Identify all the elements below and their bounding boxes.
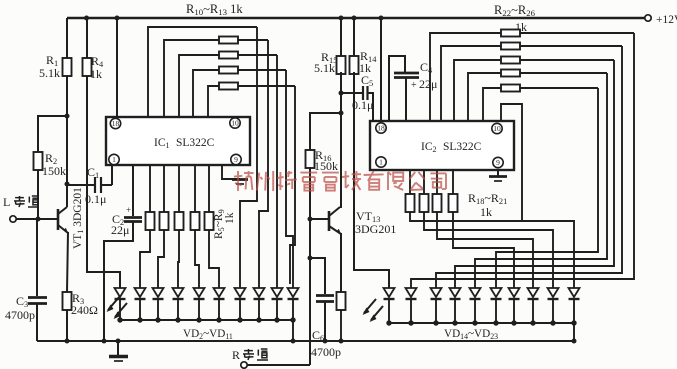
svg-text:18: 18 (112, 119, 120, 128)
svg-text:10: 10 (493, 124, 501, 133)
svg-text:1: 1 (112, 155, 116, 164)
svg-text:3DG201: 3DG201 (355, 222, 396, 236)
svg-text:SL322C: SL322C (443, 141, 482, 153)
svg-text:5.1k: 5.1k (314, 61, 335, 75)
svg-text:1k: 1k (480, 205, 492, 219)
svg-text:1k: 1k (90, 67, 102, 81)
svg-text:0.1μ: 0.1μ (352, 98, 373, 112)
svg-text:+: + (411, 80, 417, 91)
svg-text:1: 1 (379, 158, 383, 167)
svg-text:10: 10 (231, 119, 239, 128)
svg-text:4700p: 4700p (5, 308, 35, 322)
svg-text:9: 9 (496, 158, 500, 167)
svg-text:VD14~VD23: VD14~VD23 (444, 328, 498, 341)
svg-text:L: L (3, 195, 10, 209)
svg-text:240Ω: 240Ω (71, 303, 98, 317)
svg-text:SL322C: SL322C (176, 137, 215, 149)
svg-text:150k: 150k (42, 164, 66, 178)
svg-text:4700p: 4700p (311, 345, 341, 359)
svg-text:22μ: 22μ (419, 77, 437, 91)
svg-text:0.1μ: 0.1μ (85, 192, 106, 206)
svg-text:VT1 3DG201: VT1 3DG201 (72, 187, 85, 249)
svg-text:+: + (126, 205, 131, 215)
svg-text:9: 9 (234, 155, 238, 164)
svg-text:22μ: 22μ (111, 223, 129, 237)
svg-text:+12V: +12V (656, 14, 677, 26)
svg-text:1k: 1k (224, 212, 236, 224)
svg-text:150k: 150k (314, 159, 338, 173)
svg-text:5.1k: 5.1k (39, 66, 60, 80)
svg-text:R: R (232, 348, 240, 362)
svg-text:18: 18 (377, 124, 385, 133)
